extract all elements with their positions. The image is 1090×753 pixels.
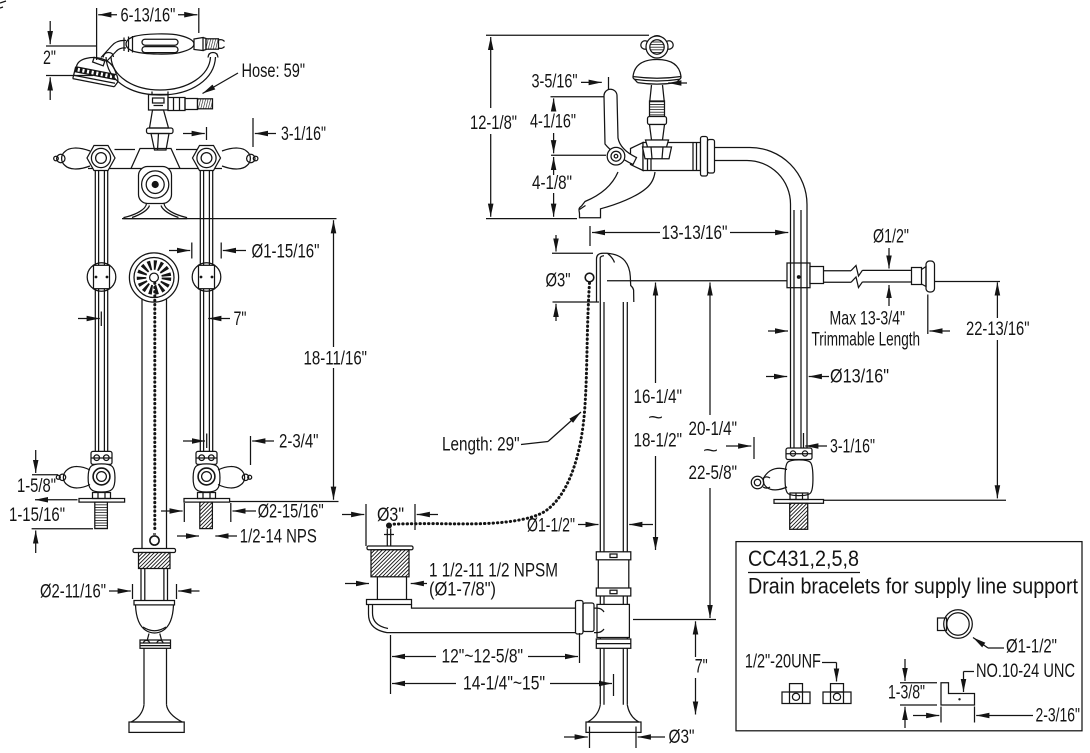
svg-text:2": 2" bbox=[43, 48, 56, 69]
svg-text:22-13/16": 22-13/16" bbox=[966, 319, 1030, 340]
tub spout side view bbox=[579, 172, 655, 218]
leader Hose: 59 bbox=[203, 61, 306, 94]
hose outlet connector bbox=[168, 98, 213, 111]
dimension 2 inch shower head bbox=[43, 21, 97, 100]
label 1/2-20UNF with leader bbox=[745, 652, 837, 682]
svg-text:3-1/16": 3-1/16" bbox=[830, 437, 875, 458]
dimension 4-1/8 bbox=[532, 157, 572, 217]
svg-text:1/2"-20UNF: 1/2"-20UNF bbox=[745, 652, 821, 673]
dimension dia 1-1/2 standpipe bbox=[527, 516, 653, 537]
svg-text:13-13/16": 13-13/16" bbox=[662, 223, 728, 244]
dimension 4-1/16 bbox=[530, 98, 576, 153]
supply pipe left bbox=[95, 171, 107, 451]
chain front view bbox=[153, 283, 156, 532]
faucet lever side view bbox=[604, 89, 637, 164]
diverter body bbox=[149, 92, 169, 111]
dimension 14-1/4 to 15 bbox=[392, 674, 614, 697]
svg-text:12-1/8": 12-1/8" bbox=[470, 113, 517, 134]
shower crown side view bbox=[641, 36, 673, 58]
overflow rosette bbox=[129, 253, 178, 302]
drain waste assembly front bbox=[129, 549, 184, 733]
svg-text:Ø1/2": Ø1/2" bbox=[873, 227, 909, 248]
label NO.10-24 UNC with leader bbox=[964, 661, 1076, 692]
dimension dia 3 drain stopper bbox=[342, 504, 438, 546]
svg-text:~: ~ bbox=[703, 441, 718, 462]
bracket front view 1 bbox=[782, 684, 810, 704]
leader dia 1-1/2 ring bbox=[973, 637, 1057, 658]
dimension 22-13/16 bbox=[824, 282, 1030, 500]
svg-text:4-1/8": 4-1/8" bbox=[532, 173, 572, 194]
svg-text:1-5/8": 1-5/8" bbox=[17, 476, 56, 497]
svg-text:22-5/8": 22-5/8" bbox=[689, 463, 738, 484]
dimension dia 3 base bbox=[564, 727, 695, 749]
shower bell side view bbox=[633, 60, 681, 85]
svg-text:NO.10-24 UNC: NO.10-24 UNC bbox=[976, 661, 1075, 682]
svg-text:20-1/4": 20-1/4" bbox=[689, 419, 738, 440]
hand shower grip bbox=[124, 34, 194, 54]
dimension 1-5/8 valve bbox=[17, 450, 58, 497]
corner mark bbox=[0, 1, 6, 8]
svg-text:Length: 29": Length: 29" bbox=[442, 435, 520, 456]
drain stopper side view bbox=[367, 523, 413, 577]
dimension 1-15/16 nipple bbox=[9, 500, 93, 553]
shower stem side view bbox=[643, 85, 672, 159]
svg-text:16-1/4": 16-1/4" bbox=[634, 387, 683, 408]
reference line mid upper bbox=[551, 96, 609, 98]
dimension 2-3/16 bbox=[913, 706, 1080, 727]
svg-text:Ø2-11/16": Ø2-11/16" bbox=[40, 582, 106, 603]
svg-text:4-1/16": 4-1/16" bbox=[530, 112, 576, 133]
faucet valve body side view bbox=[631, 137, 715, 177]
left handle hex escutcheon bbox=[87, 146, 115, 171]
supply pipe right bbox=[200, 171, 212, 451]
right cross handle bbox=[222, 148, 258, 169]
cradle bracket bbox=[103, 53, 218, 96]
svg-text:CC431,2,5,8: CC431,2,5,8 bbox=[748, 546, 859, 571]
standpipe overflow head bbox=[597, 253, 634, 302]
svg-text:1-15/16": 1-15/16" bbox=[9, 505, 65, 526]
dimension dia 1-15/16 escutcheon bbox=[169, 242, 320, 263]
wall disc left bbox=[87, 263, 116, 292]
wall disc right bbox=[192, 263, 221, 292]
left cross handle bbox=[54, 148, 90, 169]
subtitle drain bracelets bbox=[748, 574, 1078, 599]
right shutoff valve side view bbox=[751, 448, 823, 529]
dimension 6-13/16 top bbox=[97, 6, 199, 60]
dimension 13-13/16 bbox=[590, 223, 788, 246]
leader Length: 29 chain bbox=[442, 412, 581, 456]
dimension 7 pipe spacing bbox=[78, 309, 247, 330]
chain ring bbox=[150, 534, 159, 545]
bracket side view L bbox=[941, 683, 975, 705]
svg-text:Ø1-1/2": Ø1-1/2" bbox=[527, 516, 575, 537]
svg-text:3-1/16": 3-1/16" bbox=[281, 124, 326, 145]
hand shower outlet cone and hose start bbox=[194, 38, 225, 51]
dimension 12 to 12-5/8 bbox=[391, 633, 580, 694]
standpipe body bbox=[586, 302, 641, 732]
svg-text:6-13/16": 6-13/16" bbox=[121, 6, 176, 27]
dimension 20-1/4 to 22-5/8 bbox=[689, 283, 738, 619]
dimension max 13-3/4 trimmable bbox=[768, 295, 950, 351]
dimension 3-1/16 right valve bbox=[726, 433, 875, 459]
chain curve side view bbox=[392, 283, 590, 524]
dimension 1/2-14 NPS thread bbox=[177, 527, 317, 548]
svg-text:3-5/16": 3-5/16" bbox=[532, 72, 578, 93]
svg-text:Ø1-15/16": Ø1-15/16" bbox=[252, 242, 320, 263]
lever pivot circles bbox=[607, 147, 625, 165]
svg-text:Trimmable Length: Trimmable Length bbox=[812, 330, 921, 351]
trumpet spout bbox=[124, 204, 187, 219]
dimension 1-3/8 bbox=[888, 659, 937, 728]
svg-text:1-3/8": 1-3/8" bbox=[888, 683, 925, 704]
dimension 3-5/16 bbox=[532, 72, 609, 98]
svg-text:Max 13-3/4": Max 13-3/4" bbox=[830, 309, 906, 330]
pointer at shower bell bbox=[668, 82, 687, 84]
svg-text:Drain bracelets for supply lin: Drain bracelets for supply line support bbox=[748, 574, 1078, 599]
dimension 2-3/4 valve handle bbox=[183, 432, 319, 466]
svg-text:18-1/2": 18-1/2" bbox=[634, 431, 683, 452]
faucet body front bbox=[88, 149, 222, 204]
dimension 12-1/8 overall bbox=[470, 35, 649, 218]
reference line drain tee center bbox=[633, 619, 716, 621]
chain ring side bbox=[585, 273, 594, 282]
drain slip nut bbox=[576, 601, 605, 635]
support rod with break bbox=[824, 261, 935, 292]
left shutoff valve bbox=[56, 451, 124, 528]
right handle hex escutcheon bbox=[193, 146, 221, 171]
svg-text:2-3/4": 2-3/4" bbox=[279, 432, 319, 453]
dimension 18-11/16 height bbox=[122, 219, 367, 502]
dimension 16-1/4 to 18-1/2 bbox=[634, 283, 683, 551]
svg-text:(Ø1-7/8"): (Ø1-7/8") bbox=[429, 580, 496, 601]
svg-text:Hose: 59": Hose: 59" bbox=[242, 61, 306, 82]
svg-text:Ø3": Ø3" bbox=[669, 727, 695, 748]
dimension dia 1/2 support rod bbox=[873, 227, 909, 307]
svg-text:Ø1-1/2": Ø1-1/2" bbox=[1006, 637, 1057, 658]
dimension dia 2-15/16 flange bbox=[161, 502, 324, 523]
title CC431,2,5,8 bbox=[748, 546, 860, 573]
svg-text:2-3/16": 2-3/16" bbox=[1036, 706, 1081, 727]
svg-text:14-1/4"~15": 14-1/4"~15" bbox=[463, 674, 545, 695]
drain pipe silhouette below rosette bbox=[142, 299, 167, 549]
supply pipe curve bbox=[715, 148, 808, 449]
inset box frame bbox=[736, 542, 1082, 731]
svg-text:1 1/2-11 1/2 NPSM: 1 1/2-11 1/2 NPSM bbox=[429, 561, 558, 582]
dimension 7 standpipe base bbox=[695, 621, 708, 714]
svg-text:1/2-14 NPS: 1/2-14 NPS bbox=[240, 527, 317, 548]
bracket front view 2 bbox=[823, 684, 851, 704]
dimension dia 13/16 supply pipe bbox=[766, 367, 889, 388]
svg-text:18-11/16": 18-11/16" bbox=[304, 349, 368, 370]
label 1 1/2-11 1/2 NPSM bbox=[345, 561, 558, 601]
support rod bracket bbox=[787, 263, 824, 288]
svg-text:Ø2-15/16": Ø2-15/16" bbox=[258, 502, 324, 523]
right shutoff valve bbox=[184, 451, 252, 528]
ring bracket top view bbox=[938, 610, 973, 639]
reference line mid lever pivot bbox=[551, 154, 606, 156]
svg-text:7": 7" bbox=[695, 657, 708, 678]
hand shower head bbox=[73, 57, 118, 86]
svg-text:Ø3": Ø3" bbox=[377, 505, 404, 526]
svg-text:Ø13/16": Ø13/16" bbox=[830, 367, 889, 388]
reference line head top bbox=[607, 280, 1000, 283]
riser column bbox=[147, 110, 174, 150]
svg-text:Ø3": Ø3" bbox=[546, 271, 571, 292]
hand shower neck bbox=[101, 40, 126, 61]
svg-text:12"~12-5/8": 12"~12-5/8" bbox=[442, 647, 524, 668]
drain tailpiece and elbow bbox=[367, 577, 576, 633]
dimension dia 3 overflow head bbox=[546, 235, 600, 321]
dimension dia 2-11/16 drain collar bbox=[40, 582, 200, 603]
svg-text:7": 7" bbox=[234, 309, 247, 330]
dimension 3-1/16 handle bbox=[183, 118, 326, 147]
center boss circles bbox=[142, 171, 169, 198]
svg-text:~: ~ bbox=[648, 408, 663, 429]
